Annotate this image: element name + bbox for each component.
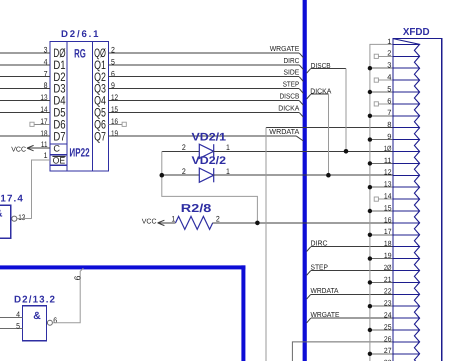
wire: DIRC from Q1 to bus bbox=[109, 64, 300, 66]
resistor R2/8 zigzag bbox=[176, 216, 213, 229]
svg-text:6: 6 bbox=[387, 96, 391, 105]
svg-text:C: C bbox=[53, 144, 60, 154]
connector pin line 22 bbox=[393, 293, 420, 295]
junction: rail pin 17 bbox=[368, 233, 372, 237]
svg-text:14: 14 bbox=[384, 192, 392, 201]
connector pin line 14 bbox=[393, 198, 420, 200]
wire: WRDATA to XFDD pin 22 bbox=[311, 293, 393, 295]
wire: VD2/1 anode bbox=[162, 150, 200, 152]
svg-text:RG: RG bbox=[74, 47, 86, 61]
svg-text:9: 9 bbox=[73, 276, 83, 281]
svg-text:SIDE: SIDE bbox=[284, 68, 300, 77]
wire: DICKA from Q5 to bus bbox=[109, 111, 300, 113]
svg-text:ИР22: ИР22 bbox=[69, 146, 89, 160]
wire: gate 13.2 output to horizontal bus bbox=[52, 268, 83, 323]
power VCC arrow (pin 11) bbox=[27, 147, 50, 149]
no-connect square on Q6 stub bbox=[122, 122, 126, 126]
junction: rail pin 27 bbox=[368, 352, 372, 356]
wire: DICKA label underline to corner bbox=[311, 93, 329, 95]
svg-text:D2/13.2: D2/13.2 bbox=[14, 295, 56, 306]
gate D2/17.4 output inversion circle bbox=[12, 216, 17, 221]
bus entry ramp DICKA bbox=[299, 112, 303, 117]
svg-text:8: 8 bbox=[387, 120, 391, 129]
wire: XFDD pin 2 no-connect stub bbox=[378, 55, 393, 57]
connector pin line 17 bbox=[393, 234, 420, 236]
svg-text:WRGATE: WRGATE bbox=[311, 310, 340, 319]
wire: WRGATE exit ramp bbox=[307, 318, 311, 323]
wire: STEP to XFDD pin 20 bbox=[311, 270, 393, 272]
connector pin line 21 bbox=[393, 281, 420, 283]
gate D2/17.4 body bbox=[0, 205, 11, 238]
no-connect square on D6 stub bbox=[30, 122, 34, 126]
wire: XFDD pin 11 stub to rail bbox=[370, 162, 393, 164]
diode VD2/1 bbox=[199, 144, 213, 158]
bus entry ramp WRGATE bbox=[299, 53, 303, 58]
wire: XFDD pin 3 stub to rail bbox=[370, 67, 393, 69]
junction: rail pin 9 bbox=[368, 137, 372, 141]
svg-text:27: 27 bbox=[384, 346, 392, 355]
junction: rail pin 19 bbox=[368, 256, 372, 260]
svg-text:22: 22 bbox=[384, 287, 392, 296]
junction: rail pin 11 bbox=[368, 161, 372, 165]
connector pin line 18 bbox=[393, 246, 420, 248]
power VCC arrow (R2/8) bbox=[158, 222, 176, 224]
connector pin line 24 bbox=[393, 317, 420, 319]
svg-text:6: 6 bbox=[53, 316, 57, 325]
svg-text:9: 9 bbox=[387, 132, 391, 141]
wire: input to D4 bbox=[0, 100, 50, 102]
svg-text:4: 4 bbox=[16, 310, 20, 319]
wire: WRDATA vertical at x=266 bbox=[265, 128, 267, 361]
svg-text:STEP: STEP bbox=[311, 262, 329, 271]
svg-text:XFDD: XFDD bbox=[403, 27, 430, 38]
svg-text:5: 5 bbox=[387, 84, 391, 93]
wire: XFDD pin 6 no-connect stub bbox=[378, 103, 393, 105]
wire: VD2/1 cathode to XFDD pin 10 (DISCB) bbox=[214, 150, 393, 152]
wire: XFDD pin 19 stub to rail bbox=[370, 258, 393, 260]
svg-text:Q7: Q7 bbox=[94, 129, 106, 143]
svg-text:3: 3 bbox=[387, 61, 391, 70]
svg-text:R2/8: R2/8 bbox=[181, 203, 212, 215]
wire: OE pin 1 to gate D2/17.4 output bbox=[32, 160, 51, 219]
wire: XFDD pin 9 stub to rail bbox=[370, 139, 393, 141]
wire: Q6 no-connect stub bbox=[109, 123, 123, 125]
junction: rail pin 5 bbox=[368, 90, 372, 94]
svg-text:11: 11 bbox=[384, 156, 392, 165]
junction: DICKA onto pin12 line bbox=[326, 173, 331, 178]
wire: XFDD pin 27 stub to rail bbox=[370, 353, 393, 355]
junction: rail pin 7 bbox=[368, 114, 372, 118]
svg-text:DIRC: DIRC bbox=[284, 56, 300, 65]
wire: input to D7 bbox=[0, 135, 50, 137]
junction: R2/8 / diode loop / pin16 bbox=[255, 221, 260, 226]
svg-text:D2/6.1: D2/6.1 bbox=[61, 29, 99, 40]
svg-text:16: 16 bbox=[384, 215, 392, 224]
wire: input to D5 bbox=[0, 111, 50, 113]
connector pin line 11 bbox=[393, 162, 420, 164]
bus entry ramp DIRC bbox=[299, 65, 303, 70]
svg-text:OE: OE bbox=[53, 156, 66, 166]
svg-text:1Ø: 1Ø bbox=[384, 144, 392, 153]
bus entry ramp STEP bbox=[299, 89, 303, 94]
wire: D6 no-connect stub bbox=[34, 123, 50, 125]
connector pin line 16 bbox=[393, 222, 420, 224]
wire: DISCB label underline to corner bbox=[311, 67, 346, 69]
connector pin line 26 bbox=[393, 341, 420, 343]
svg-text:12: 12 bbox=[384, 168, 392, 177]
svg-text:7: 7 bbox=[387, 108, 391, 117]
junction: rail pin 13 bbox=[368, 185, 372, 189]
connector pin line 19 bbox=[393, 258, 420, 260]
gate D2/13.2 body bbox=[22, 306, 46, 341]
wire: R2/8 pin 2 to XFDD pin 16 bbox=[213, 222, 393, 224]
svg-text:1: 1 bbox=[387, 37, 391, 46]
wire: XFDD pin 17 stub to rail bbox=[370, 234, 393, 236]
connector pin line 23 bbox=[393, 305, 420, 307]
connector pin line 2 bbox=[393, 55, 420, 57]
junction: DISCB onto pin10 line bbox=[344, 149, 349, 154]
wire: XFDD pin 13 stub to rail bbox=[370, 186, 393, 188]
wire: DIRC exit ramp bbox=[307, 247, 311, 252]
svg-text:DIRC: DIRC bbox=[311, 239, 328, 248]
svg-text:25: 25 bbox=[384, 322, 392, 331]
wire: input to D1 bbox=[0, 64, 50, 66]
wire: XFDD pin 7 stub to rail bbox=[370, 115, 393, 117]
junction: rail pin 15 bbox=[368, 209, 372, 213]
no-connect square pin 4 bbox=[374, 78, 378, 82]
svg-text:23: 23 bbox=[384, 299, 392, 308]
junction: rail pin 3 bbox=[368, 66, 372, 70]
wire: ground rail bbox=[370, 44, 393, 361]
connector pin line 8 bbox=[393, 127, 420, 129]
wire: VD2/2 anode bbox=[162, 174, 200, 176]
connector pin line 10 bbox=[393, 151, 420, 153]
svg-text:VD2/1: VD2/1 bbox=[192, 131, 227, 143]
gate D2/13.2 output inversion circle bbox=[47, 320, 52, 325]
wire: diode anode tie-down loop bbox=[162, 151, 258, 223]
bus entry ramp SIDE bbox=[299, 77, 303, 82]
wire: WRGATE from Q0 to bus bbox=[109, 52, 300, 54]
wire: input to D3 bbox=[0, 88, 50, 90]
bus entry ramp WRDATA bbox=[297, 136, 304, 141]
junction: VD2/2 anode bbox=[160, 173, 165, 178]
wire: XFDD pin 23 stub to rail bbox=[370, 305, 393, 307]
wire: WRDATA to XFDD pin 8 bbox=[266, 127, 393, 129]
svg-text:5: 5 bbox=[16, 321, 20, 330]
svg-text:21: 21 bbox=[384, 275, 392, 284]
no-connect square pin 6 bbox=[374, 102, 378, 106]
svg-text:DISCB: DISCB bbox=[280, 92, 300, 101]
svg-text:13: 13 bbox=[384, 180, 392, 189]
junction: rail pin 25 bbox=[368, 328, 372, 332]
svg-text:2: 2 bbox=[387, 49, 391, 58]
wire: VD2/2 cathode to XFDD pin 12 bbox=[214, 174, 393, 176]
register D2/6.1 (ИР22) body bbox=[50, 42, 109, 172]
junction: rail pin 23 bbox=[368, 304, 372, 308]
wire: STEP exit ramp bbox=[307, 271, 311, 276]
connector pin line 27 bbox=[393, 353, 420, 355]
connector pin line 13 bbox=[393, 186, 420, 188]
svg-text:1: 1 bbox=[44, 151, 48, 160]
svg-text:2: 2 bbox=[182, 143, 186, 152]
wire: DIRC to XFDD pin 18 bbox=[311, 246, 393, 248]
wire: WRDATA from Q7 to bus bbox=[109, 135, 297, 137]
svg-text:WRDATA: WRDATA bbox=[311, 286, 339, 295]
wire: STEP from Q3 to bus bbox=[109, 88, 300, 90]
junction: rail pin 21 bbox=[368, 280, 372, 284]
wire: WRGATE to XFDD pin 24 bbox=[311, 317, 393, 319]
svg-text:VCC: VCC bbox=[142, 219, 157, 226]
connector pin line 20 bbox=[393, 270, 420, 272]
svg-text:VCC: VCC bbox=[11, 146, 26, 153]
connector pin line 25 bbox=[393, 329, 420, 331]
no-connect square pin 14 bbox=[374, 197, 378, 201]
svg-text:13: 13 bbox=[18, 213, 26, 222]
svg-text:1: 1 bbox=[171, 215, 175, 224]
connector pin line 6 bbox=[393, 103, 420, 105]
svg-text:24: 24 bbox=[384, 311, 392, 320]
connector XFDD body bbox=[393, 39, 442, 361]
wire: DISCB from Q4 to bus bbox=[109, 100, 300, 102]
no-connect square pin 2 bbox=[374, 54, 378, 58]
wire: WRDATA exit ramp bbox=[307, 294, 311, 299]
wire: XFDD pin 15 stub to rail bbox=[370, 210, 393, 212]
svg-text:&: & bbox=[0, 207, 3, 219]
svg-text:2Ø: 2Ø bbox=[384, 263, 392, 272]
bus: horizontal trunk lower left bbox=[0, 265, 245, 269]
wire: XFDD pin 4 no-connect stub bbox=[378, 79, 393, 81]
wire: input to D2 bbox=[0, 76, 50, 78]
svg-text:17: 17 bbox=[384, 227, 392, 236]
wire: gate 13.2 input pin 4 bbox=[0, 316, 22, 318]
connector XFDD contact zigzag bbox=[393, 39, 420, 361]
connector pin line 12 bbox=[393, 174, 420, 176]
bus entry ramp DISCB bbox=[299, 101, 303, 106]
svg-text:WRGATE: WRGATE bbox=[270, 44, 300, 53]
svg-text:19: 19 bbox=[384, 251, 392, 260]
svg-text:STEP: STEP bbox=[283, 80, 300, 89]
svg-text:4: 4 bbox=[387, 73, 391, 82]
wire: input to D0 bbox=[0, 52, 50, 54]
svg-text:WRDATA: WRDATA bbox=[269, 127, 299, 136]
connector pin line 9 bbox=[393, 139, 420, 141]
diode VD2/2 bbox=[199, 168, 213, 182]
wire: DISCB vertical drop bbox=[345, 68, 347, 151]
svg-text:18: 18 bbox=[384, 239, 392, 248]
bus: main vertical trunk bbox=[303, 0, 307, 361]
connector pin line 7 bbox=[393, 115, 420, 117]
wire: DISCB exit ramp bbox=[307, 68, 311, 73]
svg-text:D2/17.4: D2/17.4 bbox=[0, 194, 23, 205]
wire: DICKA vertical drop bbox=[327, 94, 329, 175]
wire: XFDD pin 21 stub to rail bbox=[370, 281, 393, 283]
svg-text:2: 2 bbox=[216, 215, 220, 224]
connector pin line 3 bbox=[393, 67, 420, 69]
connector pin line 1 bbox=[393, 43, 420, 45]
wire: SIDE from Q2 to bus bbox=[109, 76, 300, 78]
svg-text:15: 15 bbox=[384, 203, 392, 212]
wire: XFDD pin 25 stub to rail bbox=[370, 329, 393, 331]
connector pin line 4 bbox=[393, 79, 420, 81]
wire: XFDD pin 26 down bbox=[292, 342, 393, 361]
connector pin line 15 bbox=[393, 210, 420, 212]
wire: DICKA exit ramp bbox=[307, 94, 311, 99]
bus: vertical drop at x=243 bbox=[241, 265, 245, 361]
svg-text:11: 11 bbox=[41, 140, 48, 149]
svg-text:D7: D7 bbox=[53, 129, 65, 143]
connector pin line 5 bbox=[393, 91, 420, 93]
wire: XFDD pin 14 no-connect stub bbox=[378, 198, 393, 200]
svg-text:2: 2 bbox=[182, 167, 186, 176]
svg-text:26: 26 bbox=[384, 334, 392, 343]
wire: gate 17.4 output pin 13 bbox=[17, 218, 32, 220]
wire: XFDD pin 5 stub to rail bbox=[370, 91, 393, 93]
svg-text:DICKA: DICKA bbox=[278, 103, 299, 112]
svg-text:&: & bbox=[33, 310, 41, 322]
wire: gate 13.2 input pin 5 bbox=[0, 328, 22, 330]
svg-text:VD2/2: VD2/2 bbox=[192, 155, 227, 167]
